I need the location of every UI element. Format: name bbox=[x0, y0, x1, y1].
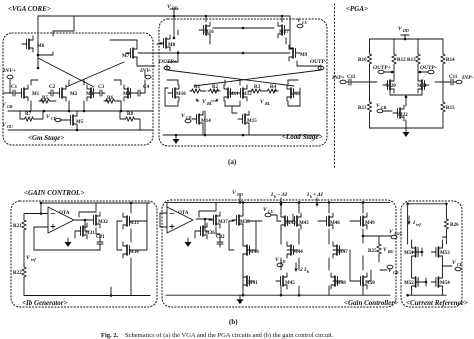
svg-text:M45: M45 bbox=[285, 281, 295, 286]
svg-text:b: b bbox=[274, 194, 276, 199]
svg-text:M2: M2 bbox=[70, 92, 78, 97]
svg-text:<Ib Generator>: <Ib Generator> bbox=[22, 299, 68, 307]
svg-text:R2: R2 bbox=[212, 85, 219, 90]
svg-text:M44: M44 bbox=[293, 250, 303, 255]
svg-text:GB: GB bbox=[393, 270, 399, 275]
svg-text:<Current Reference>: <Current Reference> bbox=[406, 299, 468, 307]
svg-text:M1: M1 bbox=[32, 92, 40, 97]
svg-text:M41: M41 bbox=[248, 281, 258, 286]
svg-text:M37: M37 bbox=[218, 220, 228, 225]
svg-text:M20: M20 bbox=[386, 84, 396, 89]
svg-text:C11: C11 bbox=[347, 75, 356, 80]
svg-text:R6: R6 bbox=[107, 96, 114, 101]
svg-text:b: b bbox=[307, 269, 309, 274]
svg-text:R8: R8 bbox=[127, 112, 134, 117]
svg-text:OTA: OTA bbox=[178, 211, 189, 216]
svg-text:ref: ref bbox=[31, 257, 36, 262]
svg-text:R12: R12 bbox=[397, 58, 406, 63]
svg-text:C11: C11 bbox=[449, 75, 458, 80]
svg-text:DD: DD bbox=[402, 28, 409, 33]
svg-text:<PGA>: <PGA> bbox=[346, 5, 368, 13]
svg-text:BG: BG bbox=[387, 249, 394, 254]
svg-text:GB: GB bbox=[7, 104, 13, 109]
svg-text:R22: R22 bbox=[13, 271, 22, 276]
svg-text:R4: R4 bbox=[270, 85, 277, 90]
svg-text:R7: R7 bbox=[25, 112, 32, 117]
svg-text:<Load Stage>: <Load Stage> bbox=[282, 133, 322, 141]
svg-text:Fig. 2.: Fig. 2. bbox=[101, 332, 119, 339]
svg-text:R10: R10 bbox=[358, 58, 367, 63]
svg-text:<VGA CORE>: <VGA CORE> bbox=[8, 5, 51, 13]
svg-text:(b): (b) bbox=[229, 318, 238, 326]
svg-text:INV+: INV+ bbox=[2, 68, 16, 74]
svg-text:OUTP-: OUTP- bbox=[310, 59, 327, 65]
svg-text:M3: M3 bbox=[86, 92, 94, 97]
svg-text:M13: M13 bbox=[290, 92, 300, 97]
svg-text:M14: M14 bbox=[201, 119, 211, 124]
svg-text:M6: M6 bbox=[37, 44, 45, 49]
svg-text:<Gain Controller>: <Gain Controller> bbox=[344, 299, 398, 307]
svg-text:M8: M8 bbox=[168, 43, 176, 48]
svg-text:BL: BL bbox=[264, 101, 271, 106]
svg-text:Schematics of (a) the VGA and: Schematics of (a) the VGA and the PGA ci… bbox=[125, 332, 334, 339]
svg-text:M15: M15 bbox=[247, 119, 257, 124]
svg-text:M10: M10 bbox=[176, 92, 186, 97]
svg-text:INP+: INP+ bbox=[331, 75, 345, 81]
svg-text:M46: M46 bbox=[330, 221, 340, 226]
svg-text:OTA: OTA bbox=[59, 211, 70, 216]
svg-text:M9: M9 bbox=[300, 53, 308, 58]
svg-text:M40: M40 bbox=[249, 250, 259, 255]
svg-text:ref: ref bbox=[416, 222, 421, 227]
svg-text:b: b bbox=[310, 194, 312, 199]
svg-text:R11: R11 bbox=[358, 106, 367, 111]
svg-text:R15: R15 bbox=[446, 106, 455, 111]
svg-text:M4: M4 bbox=[123, 92, 131, 97]
svg-text:M36: M36 bbox=[205, 231, 215, 236]
svg-text:R21: R21 bbox=[13, 224, 22, 229]
svg-text:M54: M54 bbox=[440, 281, 450, 286]
svg-text:R14: R14 bbox=[446, 58, 455, 63]
svg-text:M16: M16 bbox=[204, 30, 214, 35]
svg-text:C21: C21 bbox=[96, 235, 105, 240]
svg-text:<GAIN CONTROL>: <GAIN CONTROL> bbox=[24, 189, 84, 197]
svg-text:INV-: INV- bbox=[139, 68, 151, 74]
svg-text:C2: C2 bbox=[49, 85, 56, 90]
svg-text:M48: M48 bbox=[336, 281, 346, 286]
svg-text:− ΔI: − ΔI bbox=[277, 192, 288, 198]
svg-text:<Gm Stage>: <Gm Stage> bbox=[28, 134, 64, 142]
svg-text:M5: M5 bbox=[76, 120, 84, 125]
svg-text:DD: DD bbox=[171, 6, 178, 11]
svg-text:OUTP+: OUTP+ bbox=[159, 59, 177, 65]
svg-text:M17: M17 bbox=[279, 30, 289, 35]
svg-text:C1: C1 bbox=[11, 85, 18, 90]
svg-text:+ ΔI: + ΔI bbox=[313, 192, 324, 198]
svg-text:M32: M32 bbox=[98, 220, 108, 225]
svg-text:M53: M53 bbox=[440, 251, 450, 256]
svg-text:M50: M50 bbox=[365, 281, 375, 286]
svg-text:R25: R25 bbox=[368, 249, 377, 254]
svg-text:DD: DD bbox=[236, 192, 243, 197]
svg-text:M31: M31 bbox=[85, 231, 95, 236]
svg-text:R1: R1 bbox=[194, 85, 201, 90]
svg-text:(a): (a) bbox=[228, 158, 237, 166]
svg-text:M21: M21 bbox=[417, 84, 427, 89]
svg-text:C22: C22 bbox=[216, 235, 225, 240]
svg-text:M39: M39 bbox=[240, 220, 250, 225]
svg-text:R13: R13 bbox=[407, 58, 416, 63]
svg-text:OUTP-: OUTP- bbox=[420, 65, 437, 71]
svg-text:M51: M51 bbox=[404, 251, 414, 256]
svg-text:M34: M34 bbox=[129, 250, 139, 255]
svg-text:M7: M7 bbox=[122, 54, 130, 59]
svg-text:M43: M43 bbox=[299, 221, 309, 226]
svg-text:M12: M12 bbox=[242, 92, 252, 97]
svg-text:C3: C3 bbox=[98, 85, 105, 90]
svg-text:R26: R26 bbox=[450, 223, 459, 228]
svg-text:INP-: INP- bbox=[461, 75, 473, 81]
svg-text:M52: M52 bbox=[404, 281, 414, 286]
svg-text:C4: C4 bbox=[143, 85, 150, 90]
svg-text:R3: R3 bbox=[254, 85, 261, 90]
svg-text:M49: M49 bbox=[365, 221, 375, 226]
svg-text:M47: M47 bbox=[338, 250, 348, 255]
svg-text:M22: M22 bbox=[398, 113, 408, 118]
svg-text:CE: CE bbox=[457, 262, 463, 267]
svg-text:R5: R5 bbox=[42, 96, 49, 101]
svg-text:BL: BL bbox=[206, 101, 213, 106]
svg-text:M33: M33 bbox=[129, 221, 139, 226]
svg-text:2 I: 2 I bbox=[299, 267, 307, 273]
